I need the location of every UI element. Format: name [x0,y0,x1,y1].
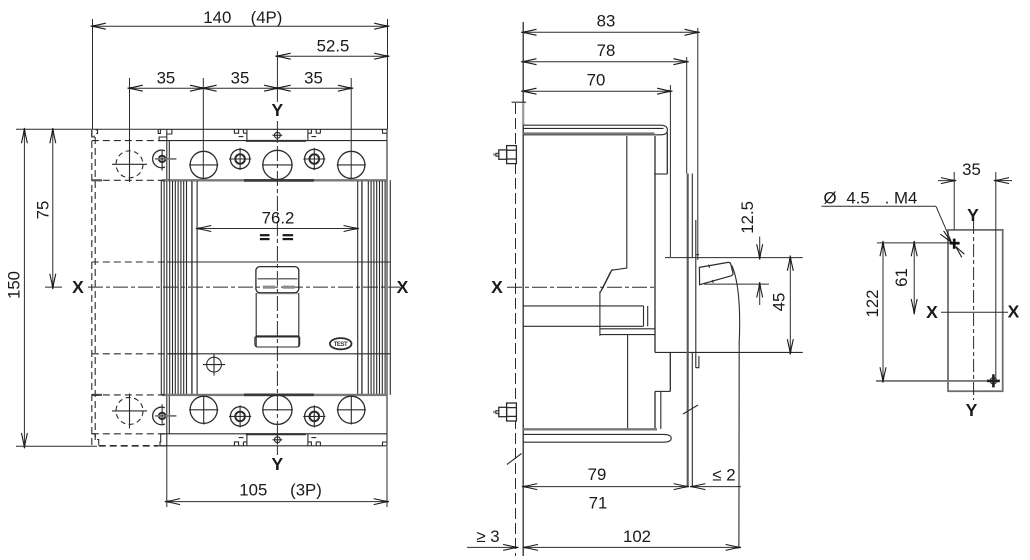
svg-text:≤ 2: ≤ 2 [712,466,735,485]
svg-text:70: 70 [587,71,606,90]
svg-text:150: 150 [5,271,24,299]
svg-text:X: X [926,302,938,322]
svg-text:X: X [397,277,409,297]
svg-text:X: X [491,277,503,297]
svg-text:102: 102 [623,527,651,546]
svg-text:. M4: . M4 [885,189,918,208]
svg-text:35: 35 [304,69,323,88]
svg-text:105: 105 [239,481,267,500]
svg-text:TEST: TEST [334,342,348,348]
svg-text:83: 83 [597,12,616,31]
svg-text:(4P): (4P) [251,8,283,27]
svg-text:35: 35 [962,160,981,179]
svg-text:12.5: 12.5 [738,201,757,234]
svg-text:(3P): (3P) [290,481,322,500]
svg-text:Ø: Ø [823,189,836,208]
svg-text:X: X [1008,302,1020,322]
svg-text:Y: Y [272,100,284,120]
svg-text:78: 78 [597,41,616,60]
svg-text:X: X [72,277,84,297]
svg-text:71: 71 [589,494,608,513]
svg-text:122: 122 [863,290,882,318]
svg-text:≥ 3: ≥ 3 [476,527,499,546]
svg-text:61: 61 [892,268,911,287]
svg-text:76.2: 76.2 [262,208,295,227]
svg-text:4.5: 4.5 [846,189,869,208]
svg-text:35: 35 [157,69,176,88]
svg-text:140: 140 [203,8,231,27]
svg-text:52.5: 52.5 [317,37,350,56]
svg-text:Y: Y [967,205,979,225]
svg-text:Y: Y [966,400,978,420]
svg-text:75: 75 [33,201,52,220]
svg-text:79: 79 [588,465,607,484]
svg-text:45: 45 [770,293,789,312]
svg-text:Y: Y [272,454,284,474]
svg-text:35: 35 [231,69,250,88]
